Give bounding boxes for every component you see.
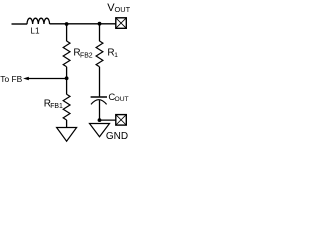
wire node A down to RFB2 [66, 24, 68, 41]
resistor RFB1 [63, 94, 70, 120]
svg-text:FB1: FB1 [50, 103, 63, 110]
node junction dot B (top of R1) [98, 22, 102, 26]
node FB junction dot [65, 76, 69, 80]
wire node B down to R1 [99, 24, 101, 42]
VOUT terminal box [116, 18, 127, 29]
inductor L1 [27, 18, 50, 24]
wire R1 to COUT [99, 67, 101, 97]
ground (left, below RFB1) [57, 128, 77, 142]
wire RFB2 to FB node [66, 67, 68, 95]
resistor R1 [96, 41, 103, 67]
ground (right, below COUT) [90, 124, 110, 137]
wire input stub left of L1 [12, 23, 28, 25]
wire To FB arrow line [27, 78, 67, 80]
svg-text:1: 1 [114, 52, 118, 59]
svg-text:GND: GND [106, 131, 128, 142]
svg-text:OUT: OUT [115, 96, 129, 103]
node ground junction dot [98, 118, 102, 122]
wire L1 to VOUT box [50, 23, 116, 25]
wire ground node to GND box [100, 119, 116, 121]
svg-text:To FB: To FB [0, 74, 22, 84]
capacitor COUT curved plate [91, 100, 107, 105]
node junction dot A (top of RFB2) [65, 22, 69, 26]
resistor RFB2 [63, 41, 70, 67]
arrowhead To FB [23, 77, 29, 80]
svg-text:OUT: OUT [115, 5, 131, 14]
capacitor COUT top plate [91, 96, 107, 98]
svg-text:L1: L1 [30, 26, 40, 35]
svg-text:FB2: FB2 [80, 52, 93, 59]
wire COUT to ground node [99, 100, 101, 120]
wire RFB1 to ground [66, 120, 68, 128]
GND terminal box [116, 115, 127, 126]
